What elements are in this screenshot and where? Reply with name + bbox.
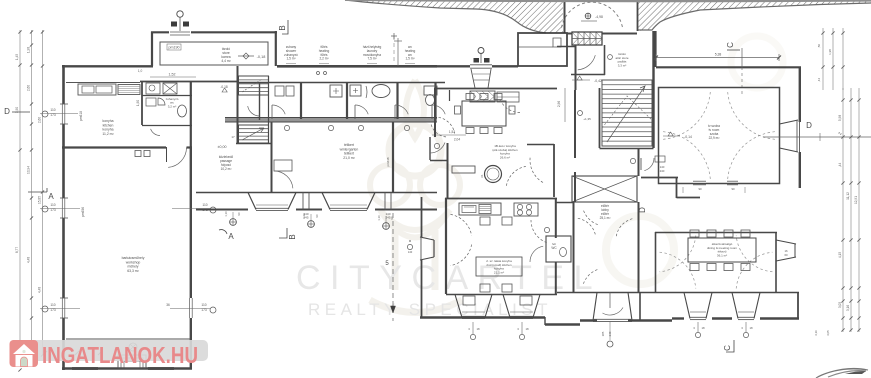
door arc kitchen to workshop — [166, 147, 168, 162]
west bay of 2nd kitchen — [420, 237, 434, 260]
svg-text:7,5 m²: 7,5 m² — [367, 57, 376, 61]
door arcs 2nd kitchen — [451, 214, 472, 235]
ticks below bays — [472, 322, 474, 334]
X-crossed box (terrace/void) — [572, 176, 637, 202]
south wall 2nd kitchen — [446, 294, 557, 296]
svg-text:110: 110 — [201, 303, 206, 307]
svg-text:18: 18 — [476, 327, 480, 331]
hatch left edge wall x637 — [637, 0, 639, 31]
svg-text:pm618: pm618 — [386, 157, 390, 167]
bay window trapezoids south (2x) — [248, 193, 296, 210]
svg-text:13,94: 13,94 — [27, 166, 31, 174]
svg-text:C: C — [726, 42, 735, 48]
entry A bell symbol — [480, 54, 482, 63]
stairs right wing — [652, 31, 654, 148]
axis line to entry — [393, 36, 395, 64]
corridor wall x430 — [429, 137, 431, 160]
entry A steps trapezoid — [471, 69, 491, 88]
svg-text:1,45: 1,45 — [15, 54, 19, 60]
svg-text:18: 18 — [749, 326, 753, 330]
dining east bay — [776, 240, 796, 261]
svg-text:3,2 m²: 3,2 m² — [168, 104, 177, 108]
door swing arc top entry (dashed) — [562, 2, 623, 27]
dim 5.38 above — [656, 57, 779, 59]
landing + door at stair bottom — [600, 148, 654, 150]
svg-text:±0,00: ±0,00 — [218, 145, 227, 149]
stove hatch — [118, 85, 140, 95]
svg-text:,44: ,44 — [817, 78, 821, 83]
svg-text:A: A — [228, 232, 234, 241]
svg-text:22,9 m²: 22,9 m² — [709, 136, 720, 140]
watermark emblem — [370, 36, 783, 313]
kitchen east alcove walls — [553, 144, 555, 197]
svg-text:4,48: 4,48 — [38, 287, 42, 293]
svg-text:D: D — [638, 207, 647, 213]
middle wing south wall inner — [196, 192, 437, 194]
door from stair hall east — [640, 158, 642, 170]
two small squares in wall — [135, 151, 141, 157]
level symbol 4.98 — [585, 13, 591, 19]
chairs — [690, 230, 699, 237]
svg-text:18: 18 — [701, 326, 705, 330]
east wall of wintergarten block — [392, 122, 394, 192]
grid dashed line x742 — [741, 48, 743, 67]
svg-text:A: A — [48, 192, 54, 201]
tv room box — [659, 88, 780, 184]
torn edge boundary curve left — [345, 0, 546, 33]
table upper kitchen — [462, 101, 506, 126]
bottom slash ticks left — [43, 351, 47, 355]
kitchen label box — [476, 257, 522, 276]
torn edge boundary curve right — [637, 3, 871, 30]
door arc small room A — [248, 106, 260, 116]
svg-text:,44: ,44 — [838, 163, 842, 168]
page curl bottom right — [816, 368, 868, 378]
svg-text:-0,14: -0,14 — [684, 135, 692, 139]
kitchen north counter wall — [140, 81, 237, 83]
strip partitions — [237, 66, 239, 143]
svg-text:110: 110 — [50, 203, 55, 207]
svg-text:15,85: 15,85 — [38, 196, 42, 204]
svg-text:90: 90 — [237, 212, 241, 216]
svg-text:2,04: 2,04 — [454, 138, 460, 142]
bath room top right of kitchen — [142, 95, 192, 97]
dining vault arcs — [660, 236, 696, 272]
svg-text:110: 110 — [202, 203, 207, 207]
svg-text:4,48: 4,48 — [27, 257, 31, 263]
page top edge smudge — [345, 0, 871, 2]
tv room south windows — [693, 181, 706, 183]
window annotations on side walls — [42, 206, 48, 212]
connector walls lobby->dining — [639, 292, 641, 320]
line across workshop y338 — [66, 338, 190, 340]
svg-text:3,05: 3,05 — [826, 330, 830, 336]
window W in west wall (3x) — [61, 104, 63, 124]
dining table — [688, 238, 756, 262]
svg-text:1,0: 1,0 — [138, 69, 143, 73]
svg-text:D: D — [806, 121, 812, 130]
svg-text:+1,35: +1,35 — [583, 117, 591, 121]
shelf left — [452, 166, 475, 173]
svg-text:8,77: 8,77 — [15, 247, 19, 253]
svg-text:1,5 m²: 1,5 m² — [405, 57, 414, 61]
svg-text:∿: ∿ — [838, 131, 842, 137]
strip inner wall line (north wall poche) — [237, 82, 445, 84]
svg-text:25,1 m²: 25,1 m² — [600, 216, 611, 220]
svg-text:185: 185 — [601, 331, 605, 336]
svg-text:240: 240 — [660, 169, 665, 173]
level -0.42 — [577, 76, 582, 80]
wall kitchen/bath — [141, 82, 143, 125]
svg-text:C: C — [723, 345, 732, 351]
workshop east wall — [190, 147, 192, 298]
svg-text:10,2 m²: 10,2 m² — [221, 167, 232, 171]
svg-text:2,96: 2,96 — [557, 101, 561, 107]
porch inner room — [160, 42, 268, 65]
outer west wall of left wing — [62, 65, 65, 104]
svg-text:21,1 m²: 21,1 m² — [494, 270, 504, 274]
lobby walls — [573, 202, 575, 292]
svg-text:60: 60 — [784, 253, 788, 257]
svg-text:1,98: 1,98 — [828, 49, 832, 55]
svg-text:2,60: 2,60 — [27, 85, 31, 91]
label pm190 — [167, 44, 181, 50]
svg-text:90: 90 — [315, 214, 319, 218]
stairs left lower flight — [239, 125, 269, 143]
small cupboard + door — [274, 160, 292, 171]
svg-text:1,10: 1,10 — [377, 215, 381, 221]
right wing east outer wall — [799, 67, 801, 122]
svg-text:pm656: pm656 — [81, 207, 85, 217]
door + dim in corridor — [430, 143, 445, 154]
svg-text:B: B — [278, 25, 287, 30]
svg-text:21,0 m²: 21,0 m² — [343, 156, 355, 160]
tv room vault arcs — [663, 92, 710, 139]
svg-text:110: 110 — [50, 108, 55, 112]
lobby door arcs — [578, 218, 596, 236]
svg-text:1,5 m²: 1,5 m² — [286, 57, 295, 61]
svg-text:D: D — [4, 107, 10, 116]
svg-text:-4,98: -4,98 — [595, 15, 603, 19]
axis circles below wall — [230, 219, 237, 226]
svg-text:4,15: 4,15 — [838, 252, 842, 258]
dining room walls — [655, 232, 777, 234]
kitchen south wall — [62, 146, 166, 148]
stove circle — [485, 166, 502, 183]
porch bay with door — [593, 293, 632, 321]
svg-text:61: 61 — [480, 174, 484, 178]
svg-text:INGATLANOK.HU: INGATLANOK.HU — [42, 342, 198, 368]
kitchen counters top — [459, 203, 501, 215]
svg-text:B: B — [288, 234, 297, 239]
svg-text:1,10: 1,10 — [224, 211, 228, 217]
svg-text:3,3 m²: 3,3 m² — [618, 63, 627, 67]
level mark -0.18 — [243, 53, 249, 59]
house icon — [13, 344, 35, 354]
svg-text:WC: WC — [551, 246, 557, 250]
svg-text:1,98: 1,98 — [27, 47, 31, 53]
dim 1.52 over counter — [150, 76, 196, 78]
svg-text:90: 90 — [390, 216, 394, 220]
bays below kitchen — [455, 295, 492, 318]
logo orange house square — [10, 340, 39, 367]
svg-text:17: 17 — [231, 135, 235, 139]
room box top-center — [518, 33, 567, 66]
svg-text:1,10: 1,10 — [302, 213, 306, 219]
svg-text:3,16: 3,16 — [814, 330, 818, 336]
logo gray band — [30, 340, 208, 361]
svg-text:36,1 m²: 36,1 m² — [717, 253, 727, 257]
right wing north outer wall — [656, 66, 801, 68]
walls connecting to dining — [641, 177, 678, 179]
north outer wall of service strip — [277, 65, 437, 68]
left dimension chains — [19, 30, 21, 355]
big family kitchen (26.6) — [434, 88, 436, 137]
left chain ticks — [18, 30, 21, 33]
middle wing south wall outer — [196, 209, 248, 211]
svg-text:2,2 m²: 2,2 m² — [319, 57, 328, 61]
svg-text:18: 18 — [525, 327, 529, 331]
east bay window of tv room — [780, 120, 799, 152]
svg-text:1,52: 1,52 — [169, 73, 176, 77]
dining south wall + bays — [660, 292, 799, 294]
svg-text:36: 36 — [166, 303, 170, 307]
entry mat inside kitchen — [470, 91, 495, 102]
stairs left upper flight — [239, 76, 269, 95]
wc closet — [546, 236, 571, 262]
kitchen counter fixtures — [78, 84, 116, 95]
kitchen table + chairs — [480, 217, 490, 225]
svg-text:-0,18: -0,18 — [257, 55, 266, 59]
svg-text:140: 140 — [408, 250, 413, 254]
entry door + bell symbol above porch — [169, 31, 191, 35]
svg-text:2,60: 2,60 — [38, 117, 42, 123]
svg-text:90: 90 — [731, 187, 735, 191]
interior steps bottom center — [118, 355, 146, 368]
chimney wall x564 — [564, 0, 566, 33]
svg-text:5,98: 5,98 — [838, 115, 842, 121]
door arc bath — [151, 129, 160, 136]
svg-text:11,12: 11,12 — [846, 192, 850, 200]
svg-text:26,6 m²: 26,6 m² — [500, 155, 510, 159]
top wall kitchen wing — [62, 65, 153, 67]
right dimension chains main — [842, 88, 844, 332]
storage porch block top — [151, 32, 153, 67]
svg-text:pm190: pm190 — [169, 46, 180, 50]
door arcs upper kitchen — [431, 123, 446, 137]
svg-text:12,91: 12,91 — [854, 196, 858, 204]
svg-text:90: 90 — [698, 187, 702, 191]
lobby south wall + porch bay — [557, 292, 660, 294]
dashed axis line B5 — [392, 213, 394, 313]
arrow dim right wing — [777, 56, 781, 60]
dim line at east + D marker — [763, 136, 871, 138]
bath fixtures — [178, 105, 187, 117]
south wall of service strip (hatched masonry) — [225, 118, 437, 123]
svg-text:63,3 m²: 63,3 m² — [127, 269, 139, 273]
svg-text:110: 110 — [50, 303, 55, 307]
svg-text:4,4 m²: 4,4 m² — [221, 59, 231, 63]
kitchen window annotation west — [42, 111, 48, 117]
top-center walls around entry — [437, 65, 518, 67]
svg-text:5,38: 5,38 — [715, 53, 722, 57]
wall passage/wintergarten — [271, 122, 273, 192]
entry A opening in north wall — [470, 64, 492, 69]
workshop bottom wall — [62, 367, 192, 369]
checkered entry mat — [572, 32, 602, 45]
small vent circles — [317, 72, 320, 75]
second flat kitchen walls — [445, 198, 557, 200]
torn page edge hatching top right — [345, 0, 563, 33]
svg-text:-0,42: -0,42 — [594, 79, 602, 83]
ticks below dining bays — [697, 322, 699, 332]
svg-text:,50: ,50 — [817, 44, 821, 49]
door arcs inside strip rooms — [271, 105, 273, 119]
hob circles — [514, 203, 538, 216]
svg-text:3,05: 3,05 — [838, 302, 842, 308]
svg-text:3,16: 3,16 — [846, 305, 850, 311]
circled door numbers — [284, 125, 289, 130]
doors in south wall — [302, 193, 304, 210]
svg-text:1,90: 1,90 — [136, 100, 140, 106]
level -0.14 — [668, 132, 673, 136]
svg-text:pm618: pm618 — [79, 111, 83, 121]
right dimension chains top — [822, 28, 824, 90]
wall between kitchen block and stair corridor — [574, 90, 576, 158]
svg-text:11,2 m²: 11,2 m² — [102, 132, 114, 136]
bathroom fixtures in strip — [275, 86, 284, 96]
vestibule walls — [575, 45, 577, 90]
